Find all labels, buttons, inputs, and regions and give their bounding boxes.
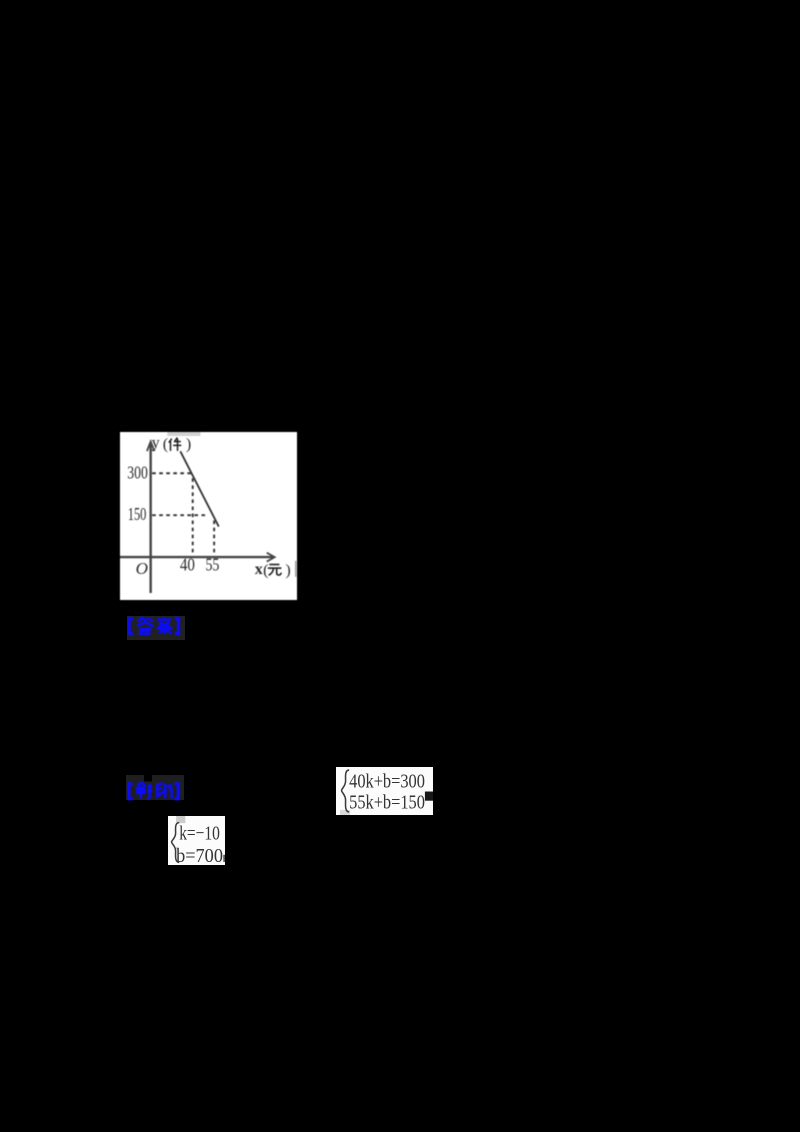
svg-text:40: 40 — [180, 554, 195, 574]
svg-text:): ) — [285, 562, 290, 579]
svg-text:b=700: b=700 — [176, 845, 223, 865]
svg-text:y: y — [152, 435, 160, 452]
svg-text:55k+b=150: 55k+b=150 — [349, 791, 425, 813]
svg-text:x: x — [255, 561, 263, 578]
svg-text:(: ( — [163, 436, 168, 453]
svg-text:): ) — [186, 436, 191, 453]
svg-text:(: ( — [263, 562, 268, 579]
svg-text:k=−10: k=−10 — [179, 822, 220, 844]
svg-text:55: 55 — [205, 554, 219, 574]
svg-text:40k+b=300: 40k+b=300 — [349, 770, 425, 792]
svg-text:300: 300 — [127, 462, 148, 482]
svg-text:O: O — [136, 559, 148, 578]
svg-text:150: 150 — [128, 504, 147, 524]
